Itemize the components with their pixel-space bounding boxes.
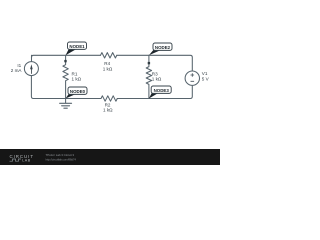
svg-text:NODE3: NODE3 — [154, 88, 170, 94]
junction dot R1 — [64, 60, 66, 62]
footer text — [46, 153, 77, 161]
junction dot R3 — [148, 62, 150, 64]
resistor R4 — [101, 53, 117, 58]
node NODE0 — [66, 92, 76, 98]
labels — [11, 61, 210, 112]
I1 arrow — [30, 64, 33, 74]
resistor R2 — [101, 96, 117, 101]
node NODE2 — [149, 49, 160, 56]
svg-text:1 kΩ: 1 kΩ — [103, 66, 113, 71]
node NODE3 — [149, 91, 158, 98]
svg-text:1 kΩ: 1 kΩ — [72, 76, 82, 81]
wire left — [31, 55, 101, 98]
svg-text:1 kΩ: 1 kΩ — [152, 76, 162, 81]
svg-text:LAB: LAB — [22, 159, 31, 163]
node NODE1 — [66, 48, 76, 56]
wire branch R1 — [63, 55, 68, 98]
svg-text:5 V: 5 V — [202, 76, 210, 81]
current source I1 — [24, 62, 38, 76]
svg-text:R4: R4 — [104, 61, 110, 66]
footer logo waveform — [10, 159, 22, 161]
ground — [60, 99, 72, 109]
svg-text:NODE1: NODE1 — [69, 44, 85, 50]
wire branch R3 — [146, 55, 151, 98]
wire top — [32, 55, 101, 58]
wire top-right — [117, 55, 193, 71]
V1 plus minus — [191, 73, 195, 81]
voltage source V1 — [185, 71, 199, 85]
wire bottom-right — [117, 86, 192, 99]
footer logo text — [10, 154, 34, 163]
node callouts — [66, 42, 172, 99]
svg-text:NODE2: NODE2 — [155, 45, 171, 51]
svg-text:http://circuitlab.com/88d74: http://circuitlab.com/88d74 — [46, 158, 77, 162]
svg-text:2 mA: 2 mA — [11, 68, 23, 73]
svg-text:NODE0: NODE0 — [70, 89, 86, 95]
footer bar — [0, 149, 220, 165]
svg-text:1 kΩ: 1 kΩ — [103, 107, 113, 112]
